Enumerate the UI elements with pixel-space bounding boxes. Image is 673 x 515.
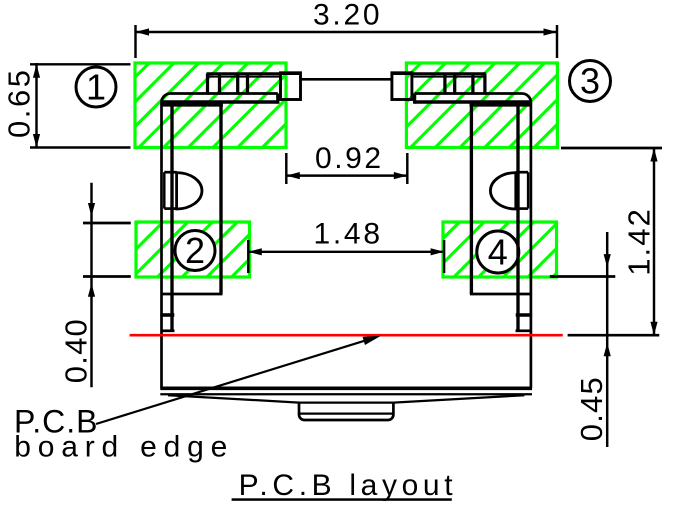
- svg-text:2: 2: [185, 230, 205, 271]
- svg-text:0.45: 0.45: [574, 377, 609, 441]
- svg-text:1.42: 1.42: [622, 209, 657, 276]
- svg-text:3: 3: [580, 61, 600, 102]
- svg-text:3.20: 3.20: [313, 0, 380, 32]
- svg-text:0.65: 0.65: [2, 70, 37, 138]
- svg-text:0.92: 0.92: [315, 142, 381, 175]
- svg-text:0.40: 0.40: [58, 319, 93, 383]
- svg-text:4: 4: [488, 232, 508, 273]
- svg-text:1.48: 1.48: [314, 218, 381, 251]
- svg-text:1: 1: [86, 67, 106, 108]
